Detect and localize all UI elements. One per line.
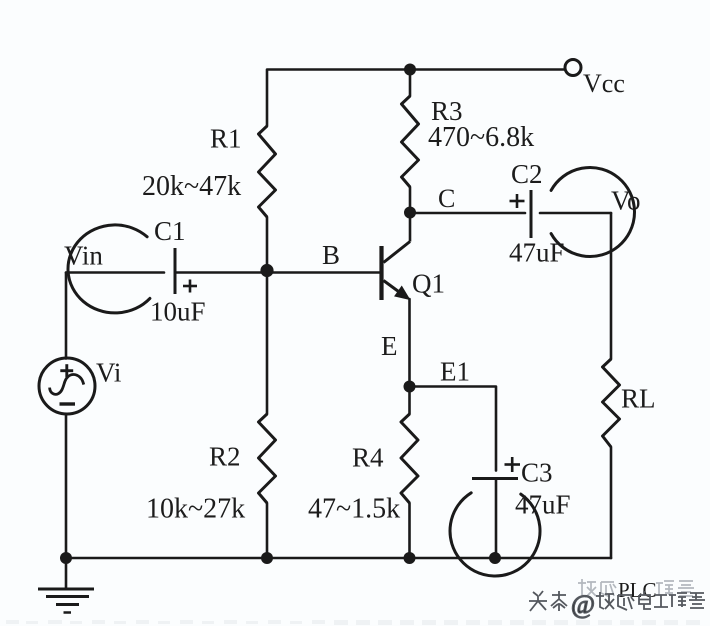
capacitor C3 bbox=[472, 457, 520, 479]
terminal Vcc bbox=[565, 60, 581, 76]
svg-text:R2: R2 bbox=[209, 442, 241, 472]
svg-text:E1: E1 bbox=[440, 357, 470, 387]
capacitor C2 bbox=[510, 190, 532, 238]
svg-text:@: @ bbox=[571, 590, 595, 619]
resistor R1 bbox=[259, 126, 276, 217]
wire main base rail bbox=[66, 271, 164, 274]
capacitor C1 bbox=[175, 248, 197, 294]
wire E1 to C3 bbox=[410, 387, 497, 471]
svg-text:R4: R4 bbox=[352, 443, 384, 473]
svg-text:C1: C1 bbox=[154, 216, 186, 246]
watermark bottom edge band bbox=[6, 620, 700, 625]
svg-text:47~1.5k: 47~1.5k bbox=[308, 494, 400, 525]
svg-text:C: C bbox=[438, 184, 455, 213]
wire ground stub bbox=[65, 558, 68, 589]
svg-text:Vi: Vi bbox=[96, 358, 121, 388]
source Vi bbox=[39, 358, 95, 414]
node bottom R4 junction bbox=[404, 552, 416, 564]
svg-text:Vo: Vo bbox=[611, 186, 641, 216]
svg-text:Q1: Q1 bbox=[412, 269, 445, 299]
node bottom left junction bbox=[60, 552, 72, 564]
svg-text:470~6.8k: 470~6.8k bbox=[428, 122, 534, 153]
svg-text:10k~27k: 10k~27k bbox=[146, 494, 245, 525]
wire emitter to E1 bbox=[408, 299, 411, 387]
ground bbox=[38, 589, 94, 613]
svg-text:Vcc: Vcc bbox=[583, 69, 625, 98]
wire right rail bbox=[610, 213, 613, 359]
wire collector lead bbox=[409, 213, 412, 242]
wire node C to C2 bbox=[410, 212, 525, 215]
wire R4 bottom lead bbox=[408, 503, 411, 558]
svg-text:10uF: 10uF bbox=[150, 297, 206, 327]
watermark light row 技成PLC课堂 bbox=[578, 578, 694, 602]
transistor Q1 bbox=[382, 242, 411, 301]
watermark dark row 头条@技成电工课堂 bbox=[529, 590, 705, 619]
node junction top bbox=[404, 64, 416, 76]
wire top rail bbox=[267, 70, 565, 127]
svg-text:RL: RL bbox=[621, 384, 656, 414]
wire bottom rail bbox=[66, 557, 611, 560]
svg-text:47uF: 47uF bbox=[515, 490, 571, 520]
svg-text:B: B bbox=[322, 240, 340, 270]
wire R3 bottom lead bbox=[409, 187, 412, 213]
wire R3 top lead bbox=[409, 70, 412, 97]
annotation circle C3 bbox=[450, 493, 540, 576]
node bottom R2 junction bbox=[261, 552, 273, 564]
wire RL bottom lead bbox=[610, 447, 613, 558]
node C junction bbox=[404, 207, 416, 219]
wire C2 to right rail bbox=[540, 212, 611, 215]
resistor R4 bbox=[401, 414, 418, 503]
node E1 junction bbox=[404, 381, 416, 393]
resistor R3 bbox=[402, 96, 419, 187]
resistor RL bbox=[603, 359, 620, 447]
svg-text:E: E bbox=[381, 331, 398, 361]
wire left rail lower bbox=[65, 414, 68, 558]
wire R2 top lead bbox=[266, 273, 269, 415]
node B junction bbox=[260, 264, 273, 277]
annotation circle Vin/C1 bbox=[68, 225, 150, 313]
node bottom C3 junction bbox=[489, 552, 501, 564]
resistor R2 bbox=[259, 414, 276, 503]
annotation circle Vo/C2 bbox=[551, 167, 634, 256]
svg-text:47uF: 47uF bbox=[509, 238, 565, 268]
svg-text:C2: C2 bbox=[511, 159, 543, 189]
wire R4 top lead bbox=[408, 387, 411, 415]
wire left rail upper bbox=[65, 273, 68, 359]
svg-text:R1: R1 bbox=[210, 124, 242, 154]
wire R1 bottom lead bbox=[266, 217, 269, 273]
svg-text:C3: C3 bbox=[521, 458, 553, 488]
wire C3 bottom lead bbox=[495, 479, 498, 559]
wire R2 bottom lead bbox=[266, 503, 269, 558]
svg-text:20k~47k: 20k~47k bbox=[142, 171, 241, 202]
svg-text:Vin: Vin bbox=[64, 241, 103, 271]
